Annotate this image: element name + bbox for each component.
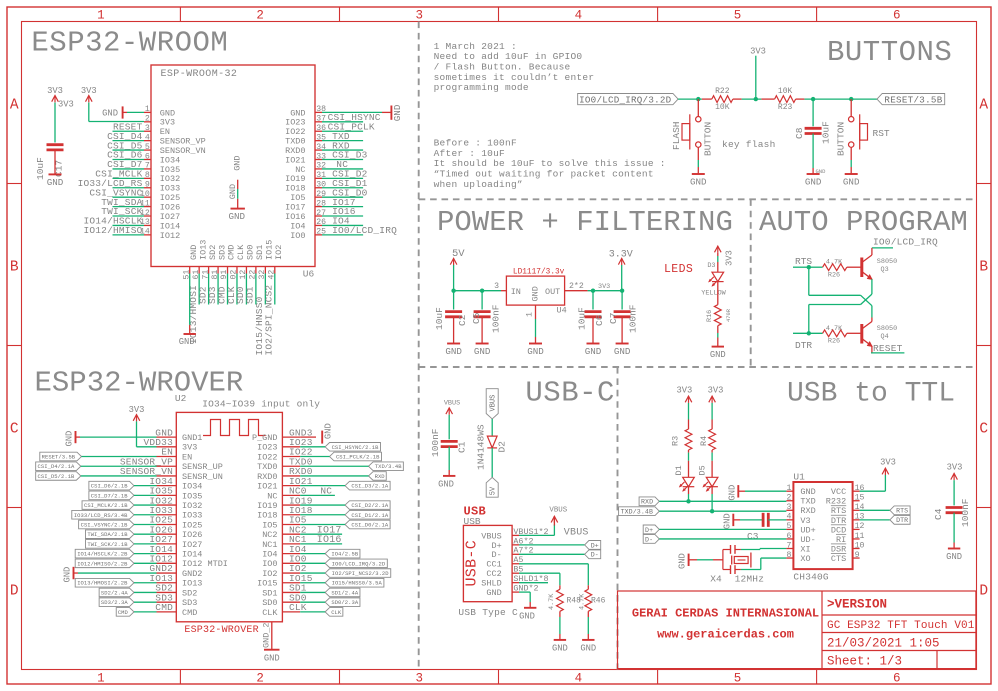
ground R48 — [559, 611, 561, 617]
ground C8 — [812, 134, 814, 169]
svg-text:IO5: IO5 — [262, 520, 277, 530]
svg-text:3.3V: 3.3V — [609, 250, 633, 261]
svg-text:IO23: IO23 — [257, 443, 277, 453]
net tag IO4/2.5B — [325, 549, 360, 558]
junction D1 — [686, 499, 690, 503]
svg-text:SD1: SD1 — [262, 588, 277, 598]
junction DTR — [807, 331, 811, 335]
svg-text:6: 6 — [893, 9, 901, 23]
wire label CSI_D1 pin 30 — [322, 187, 363, 189]
svg-text:IO33: IO33 — [182, 511, 202, 521]
svg-text:GND2: GND2 — [182, 569, 202, 579]
svg-text:GND: GND — [65, 431, 75, 447]
wire XI — [741, 549, 760, 551]
svg-text:SD3: SD3 — [182, 598, 197, 608]
net tag CSI_D0/2.1A — [345, 520, 390, 529]
svg-text:S8050: S8050 — [877, 258, 897, 266]
net tag 5V vertical — [491, 448, 493, 478]
svg-text:GND: GND — [946, 552, 962, 562]
svg-text:Q4: Q4 — [881, 333, 889, 341]
svg-text:SD0/2.3A: SD0/2.3A — [331, 599, 358, 606]
svg-text:CMD: CMD — [155, 602, 173, 613]
wire label CSI_MCLK pin 8 — [113, 177, 145, 179]
svg-text:B: B — [10, 260, 19, 276]
svg-text:GND: GND — [324, 423, 334, 439]
svg-text:D3: D3 — [707, 262, 715, 270]
net tag RESET/3.5B — [40, 452, 82, 461]
svg-text:YELLOW: YELLOW — [701, 289, 726, 297]
svg-text:RST: RST — [873, 128, 890, 139]
svg-text:ESP-WROOM-32: ESP-WROOM-32 — [161, 69, 238, 80]
svg-text:LEDS: LEDS — [664, 263, 693, 276]
svg-text:IN: IN — [511, 287, 521, 297]
svg-text:IO2/SPI_NCS2: IO2/SPI_NCS2 — [264, 285, 275, 356]
svg-text:CSI_D5/2.1B: CSI_D5/2.1B — [38, 473, 76, 480]
wire DTR — [793, 332, 823, 334]
ground C2 — [453, 317, 455, 344]
wire power rail left — [454, 290, 501, 292]
ground C6 — [592, 317, 594, 344]
wire DTR U1 — [860, 519, 890, 521]
svg-text:C: C — [10, 422, 19, 438]
net tag IO33/LCD_RS/3.4B — [72, 510, 134, 519]
net tag CSI_D4/2.1A — [36, 462, 81, 471]
svg-text:CSI_D0/2.1A: CSI_D0/2.1A — [351, 521, 389, 528]
wire label TWI_SCK pin 12 — [113, 215, 145, 217]
svg-text:4: 4 — [575, 672, 583, 686]
svg-text:100nF: 100nF — [960, 498, 971, 527]
svg-text:3: 3 — [415, 9, 423, 23]
svg-text:ESP32-WROOM: ESP32-WROOM — [31, 27, 228, 60]
regulator U4 LD1117 — [506, 276, 564, 305]
button RST — [850, 99, 852, 116]
resistor R28 top — [823, 264, 847, 271]
svg-text:XO: XO — [800, 554, 810, 564]
svg-text:R26: R26 — [828, 338, 840, 346]
ground GND_2 pad U2 — [271, 622, 273, 650]
svg-text:2*2: 2*2 — [569, 281, 584, 291]
svg-text:B: B — [979, 260, 988, 276]
svg-text:D: D — [10, 584, 19, 600]
svg-text:U6: U6 — [303, 269, 315, 280]
svg-text:>VERSION: >VERSION — [827, 598, 887, 612]
junction rst — [849, 97, 853, 101]
wire VBUS usbc — [519, 534, 554, 536]
svg-text:100nF: 100nF — [490, 304, 501, 333]
IC U6 bottom pins — [189, 267, 191, 274]
resistor R23 — [775, 96, 796, 103]
svg-text:3V3: 3V3 — [676, 385, 692, 395]
svg-text:FLASH: FLASH — [671, 121, 682, 150]
svg-text:SD2/2.4A: SD2/2.4A — [101, 589, 128, 596]
section divider horizontal power/usb — [419, 366, 977, 368]
svg-text:P_GND: P_GND — [252, 433, 278, 443]
junction D5 — [710, 509, 714, 513]
junction 3v3 — [754, 97, 758, 101]
svg-text:GND: GND — [486, 588, 501, 598]
ground C17 — [54, 149, 56, 174]
svg-text:2: 2 — [256, 672, 264, 686]
net tag IO0/LCD_IRQ/3.2D — [578, 94, 678, 105]
net tag D+ ttl — [643, 525, 659, 534]
svg-text:IO12: IO12 — [160, 231, 180, 241]
IC U1 CH340G body — [793, 482, 852, 569]
svg-text:C7: C7 — [608, 313, 619, 324]
svg-text:IO26: IO26 — [182, 530, 202, 540]
svg-text:GND: GND — [690, 177, 707, 188]
svg-text:12MHz: 12MHz — [735, 574, 765, 585]
net tag CSI_D2/2.1A — [345, 501, 390, 510]
svg-text:USB to TTL: USB to TTL — [787, 379, 955, 410]
section divider vertical power/autoprogram — [750, 199, 752, 367]
svg-text:3: 3 — [494, 282, 499, 291]
net tag CLK — [325, 608, 343, 617]
net tag CSI_D6/2.1B — [89, 481, 134, 490]
svg-text:IO4: IO4 — [262, 550, 277, 560]
svg-text:1: 1 — [97, 672, 105, 686]
capacitor C2 — [453, 291, 455, 310]
wire label CSI_D7 pin 7 — [113, 168, 145, 170]
svg-text:GND: GND — [585, 346, 602, 357]
wire D+ ttl — [659, 528, 786, 530]
wire label CSI_PCLK pin 36 — [322, 130, 363, 132]
svg-text:S8050: S8050 — [877, 325, 897, 333]
crystal X4 — [722, 550, 724, 570]
svg-text:GND: GND — [580, 643, 596, 653]
section divider horizontal buttons/power — [419, 198, 977, 200]
net tag D- ttl — [643, 535, 659, 544]
svg-text:GND: GND — [228, 184, 238, 199]
svg-text:SD0: SD0 — [262, 598, 277, 608]
net tag SD2/2.4A — [99, 588, 134, 597]
title block box — [618, 591, 976, 669]
ground pin15 U6 — [189, 274, 191, 325]
svg-text:GND: GND — [229, 211, 246, 222]
svg-text:10uF: 10uF — [35, 157, 46, 180]
wire label CSI_VSYNC pin 10 — [113, 196, 145, 198]
svg-text:R4: R4 — [699, 436, 709, 446]
wire label IO16 pin 27 — [322, 215, 363, 217]
svg-text:key flash: key flash — [722, 139, 776, 150]
wire TXD ttl — [659, 510, 786, 512]
section divider vertical left — [418, 22, 420, 670]
capacitor C7 — [621, 291, 623, 310]
svg-text:IO14: IO14 — [182, 550, 202, 560]
svg-text:IO13/HMOSI/2.2B: IO13/HMOSI/2.2B — [77, 580, 128, 587]
wire label TXD pin 35 — [322, 140, 363, 142]
resistor R3 — [688, 420, 690, 430]
svg-text:RXD0: RXD0 — [257, 472, 277, 482]
net tag TWI_SCK/2.1B — [85, 540, 134, 549]
wire label CSI_D6 pin 6 — [113, 159, 145, 161]
net tag IO13/HMOSI/2.2B — [75, 578, 134, 587]
wire label TWI_SDA pin 11 — [113, 206, 145, 208]
svg-text:GND: GND — [527, 346, 544, 357]
svg-text:CSI_PCLK/2.1B: CSI_PCLK/2.1B — [336, 454, 380, 461]
net tag TXD/3.4B ttl — [619, 507, 660, 516]
ground crystal — [688, 554, 690, 566]
wire RTS — [793, 266, 809, 268]
wire VCC 3V3 — [860, 490, 886, 492]
svg-text:R46: R46 — [591, 597, 606, 606]
net tag CSI_PCLK/2.1B — [330, 452, 382, 461]
wire label CSI_D0 pin 29 — [322, 196, 363, 198]
svg-text:4.7K: 4.7K — [826, 325, 843, 333]
svg-text:3V3: 3V3 — [81, 86, 97, 96]
junction RTS — [807, 265, 811, 269]
svg-text:3V3: 3V3 — [47, 86, 63, 96]
svg-text:RTS: RTS — [831, 506, 846, 516]
svg-text:R22: R22 — [715, 87, 730, 96]
svg-text:D2: D2 — [497, 441, 508, 453]
svg-text:UD+: UD+ — [800, 525, 815, 535]
svg-text:D-: D- — [645, 536, 653, 543]
svg-text:GND: GND — [63, 567, 73, 583]
svg-text:RI: RI — [836, 535, 846, 545]
junction c8 — [811, 97, 815, 101]
net tag RESET/3.5B — [877, 94, 945, 105]
svg-text:GND: GND — [102, 108, 118, 118]
svg-text:IO15/HNSS0/3.5A: IO15/HNSS0/3.5A — [332, 580, 383, 587]
svg-text:C: C — [979, 422, 988, 438]
svg-text:USB-C: USB-C — [464, 540, 481, 587]
svg-text:CLK: CLK — [289, 602, 307, 613]
capacitor C5 — [481, 291, 483, 310]
net tag DTR — [890, 515, 910, 524]
svg-text:IO19: IO19 — [257, 501, 277, 511]
svg-text:when uploading”: when uploading” — [434, 179, 523, 190]
svg-text:U1: U1 — [793, 472, 805, 483]
svg-text:IO18: IO18 — [257, 511, 277, 521]
net tag CSI_D1/2.1A — [345, 510, 390, 519]
svg-text:IO14/HSCLK/2.2B: IO14/HSCLK/2.2B — [77, 551, 128, 558]
svg-text:UD-: UD- — [800, 535, 815, 545]
svg-text:X4: X4 — [710, 574, 722, 585]
svg-text:10uF: 10uF — [821, 121, 832, 144]
svg-text:D+: D+ — [645, 527, 653, 534]
net tag D- usbc — [585, 550, 601, 559]
power 3V3 at pin2 U6 — [89, 121, 144, 123]
svg-text:VBUS: VBUS — [549, 506, 567, 514]
ground RST button — [850, 147, 852, 160]
wire RXD ttl — [659, 500, 786, 502]
ground GND3 U2 — [300, 436, 316, 438]
wire label CSI_D5 pin 5 — [113, 149, 145, 151]
junction c7 — [620, 289, 624, 293]
wire label IO17 pin 28 — [322, 206, 363, 208]
svg-text:IO34: IO34 — [182, 482, 202, 492]
IC J-USB body — [463, 525, 512, 601]
capacitor C1 — [441, 440, 458, 443]
svg-text:SD1/2.4A: SD1/2.4A — [331, 589, 358, 596]
power 3V3 led D3 — [715, 246, 722, 252]
button FLASH — [697, 99, 699, 116]
svg-text:ESP32-WROVER: ESP32-WROVER — [35, 366, 244, 399]
svg-text:GC ESP32 TFT Touch V01: GC ESP32 TFT Touch V01 — [827, 620, 975, 632]
svg-text:SENSR_UP: SENSR_UP — [182, 462, 223, 472]
net tag IO12/HMISO/2.2B — [75, 559, 134, 568]
svg-text:IO0/LCD_IRQ/3.2D: IO0/LCD_IRQ/3.2D — [579, 94, 671, 105]
wire label IO4 pin 26 — [322, 224, 363, 226]
wire label CSI_D3 pin 33 — [322, 159, 363, 161]
svg-text:10uF: 10uF — [434, 307, 445, 330]
svg-text:TWI_SCK/2.1B: TWI_SCK/2.1B — [87, 541, 128, 548]
net tag RXD — [369, 472, 387, 481]
svg-text:DTR: DTR — [831, 516, 846, 526]
svg-text:1N4148WS: 1N4148WS — [476, 424, 487, 470]
net tag IO0/LCD_IRQ/3.2D — [325, 559, 387, 568]
resistor R26 bottom — [823, 330, 847, 337]
net tag VBUS vertical — [486, 389, 498, 419]
svg-text:TWI_SDA/2.1B: TWI_SDA/2.1B — [87, 531, 128, 538]
svg-text:VBUS: VBUS — [444, 400, 460, 408]
svg-text:CMD: CMD — [118, 609, 129, 616]
IC U2 ESP32-WROVER body — [176, 412, 282, 621]
svg-text:GND: GND — [552, 643, 568, 653]
svg-text:A: A — [979, 98, 988, 114]
ground FLASH button — [697, 147, 699, 160]
svg-text:100nF: 100nF — [430, 428, 441, 457]
wire D- ttl — [659, 538, 786, 540]
capacitor C4 — [946, 506, 963, 509]
svg-text:XI: XI — [800, 544, 810, 554]
svg-text:RXD: RXD — [375, 473, 386, 480]
ground U4 — [535, 319, 537, 337]
net tag CMD — [116, 608, 134, 617]
svg-text:IO12 MTDI: IO12 MTDI — [182, 559, 228, 569]
ground C1 — [448, 447, 450, 470]
section divider vertical usbc/ttl — [617, 367, 619, 670]
svg-text:RXD: RXD — [641, 499, 653, 506]
ground pin1 U6 — [127, 111, 144, 113]
frame ticks — [179, 7, 181, 22]
ground R46 — [587, 611, 589, 617]
svg-text:3V3: 3V3 — [598, 283, 610, 291]
ground pin1 U1 — [737, 485, 739, 497]
svg-text:5: 5 — [734, 9, 742, 23]
svg-text:3V3: 3V3 — [58, 100, 74, 110]
svg-text:4: 4 — [575, 9, 583, 23]
wire power rail right — [588, 290, 623, 292]
IC U2 antenna squarewave — [203, 420, 266, 436]
wire cross coupling — [871, 279, 873, 294]
resistor R46 — [587, 585, 589, 589]
ground R16 — [717, 326, 719, 333]
net tag RXD ttl — [639, 497, 659, 506]
wire CC1 usbc — [519, 563, 588, 565]
svg-text:RESET/3.5B: RESET/3.5B — [884, 94, 942, 105]
net tag IO15/HNSS0/3.5A — [325, 578, 384, 587]
svg-text:NC2: NC2 — [262, 530, 277, 540]
svg-text:D+: D+ — [591, 542, 599, 549]
LED D5 — [711, 453, 713, 461]
svg-text:DTR: DTR — [896, 517, 908, 524]
svg-text:DCD: DCD — [831, 525, 846, 535]
resistor R16 — [717, 282, 719, 305]
svg-text:IO0: IO0 — [262, 559, 277, 569]
svg-text:R232: R232 — [826, 497, 846, 507]
svg-text:5: 5 — [734, 672, 742, 686]
svg-text:www.geraicerdas.com: www.geraicerdas.com — [657, 628, 794, 642]
svg-text:RXD: RXD — [800, 506, 815, 516]
svg-text:SENSR_UN: SENSR_UN — [182, 472, 223, 482]
svg-text:GND: GND — [264, 653, 280, 663]
svg-text:C8: C8 — [794, 127, 805, 139]
svg-text:10K: 10K — [778, 87, 793, 96]
svg-text:GERAI CERDAS INTERNASIONAL: GERAI CERDAS INTERNASIONAL — [632, 607, 819, 621]
svg-text:10K: 10K — [715, 103, 730, 112]
wire CC2 usbc — [519, 572, 560, 574]
svg-text:GND2: GND2 — [149, 563, 173, 574]
svg-text:VDD33: VDD33 — [143, 437, 173, 448]
svg-text:IO32: IO32 — [182, 501, 202, 511]
svg-text:IO35: IO35 — [182, 491, 202, 501]
ground GND1 U2 — [75, 431, 77, 443]
svg-text:D: D — [979, 584, 988, 600]
svg-text:GND: GND — [843, 177, 860, 188]
svg-text:IO21: IO21 — [257, 482, 277, 492]
svg-text:CSI_D6/2.1B: CSI_D6/2.1B — [91, 483, 129, 490]
svg-text:GND: GND — [392, 104, 403, 121]
svg-text:SD3/2.3A: SD3/2.3A — [101, 599, 128, 606]
svg-text:ESP32-WROVER: ESP32-WROVER — [184, 625, 258, 636]
svg-text:3: 3 — [415, 672, 423, 686]
svg-text:IO15: IO15 — [257, 579, 277, 589]
svg-text:R3: R3 — [671, 436, 681, 446]
wire label IO14/HSCLK pin 13 — [113, 224, 145, 226]
svg-text:IO4/2.5B: IO4/2.5B — [331, 551, 358, 558]
wire label IO33/LCD_RS pin 9 — [113, 187, 145, 189]
junction c5 — [480, 289, 484, 293]
svg-text:NC1: NC1 — [262, 540, 277, 550]
LED D1 — [688, 453, 690, 461]
capacitor C17 — [47, 143, 64, 146]
ground pin38 U6 — [322, 111, 382, 113]
svg-text:IO34~IO39 input only: IO34~IO39 input only — [202, 399, 320, 410]
net tag SD1/2.4A — [325, 588, 360, 597]
wire label IO12/HMISO pin 14 — [113, 234, 145, 236]
junction c6 — [591, 289, 595, 293]
net tag TXD/3.4B — [369, 462, 404, 471]
bottom pin wires U6 — [198, 274, 200, 305]
svg-text:GND: GND — [474, 346, 491, 357]
net tag IO2/SPI_NCS2/3.2D — [325, 569, 391, 578]
svg-text:IO0/LCD_IRQ/3.2D: IO0/LCD_IRQ/3.2D — [332, 560, 386, 567]
svg-text:D1: D1 — [674, 465, 684, 475]
svg-text:IO2: IO2 — [274, 245, 284, 260]
svg-text:RESET/3.5B: RESET/3.5B — [42, 454, 76, 461]
svg-text:GND: GND — [519, 611, 535, 621]
ground GND2 U2 — [73, 567, 75, 579]
svg-text:CSI_MCLK/2.1B: CSI_MCLK/2.1B — [84, 502, 128, 509]
net tag CSI_D7/2.1B — [89, 491, 134, 500]
svg-text:21/03/2021 1:05: 21/03/2021 1:05 — [827, 637, 940, 651]
svg-text:CMD: CMD — [182, 608, 197, 618]
net tag SD3/2.3A — [99, 598, 134, 607]
svg-text:R16: R16 — [706, 310, 714, 322]
svg-text:CTS: CTS — [831, 554, 846, 564]
svg-text:TXD/3.4B: TXD/3.4B — [375, 463, 402, 470]
wire D+ usbc — [519, 544, 585, 546]
svg-text:3V3: 3V3 — [947, 462, 963, 472]
wire RTS U1 — [860, 509, 890, 511]
resistor R48 — [559, 585, 561, 589]
wire label CSI_D4 pin 4 — [113, 140, 145, 142]
svg-text:3V3: 3V3 — [182, 443, 197, 453]
svg-text:IO12/HMISO: IO12/HMISO — [83, 225, 142, 236]
net tag CSI_HSYNC/2.1B — [325, 443, 380, 452]
transistor Q4 — [860, 324, 863, 344]
